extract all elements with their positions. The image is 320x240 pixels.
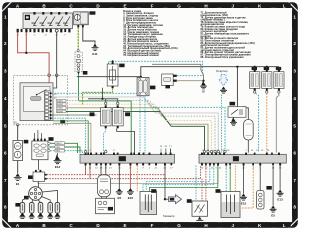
- wire black to E11: [83, 27, 95, 43]
- svg-text:5: 5: [4, 123, 7, 128]
- green wire from hall sender turning right and down: [79, 101, 132, 153]
- wire connector to distributor: [38, 182, 40, 187]
- red wire inside dashed box: [48, 75, 50, 83]
- pin column of ECU connector: [44, 91, 51, 121]
- wires strip to tank sensor 1: [136, 166, 138, 192]
- svg-text:G: G: [177, 223, 181, 228]
- svg-text:4: 4: [4, 96, 7, 101]
- wire teal from coil N30 to strip: [256, 93, 259, 152]
- plug grounds: [19, 213, 60, 218]
- ignition coil N30: [250, 67, 260, 91]
- valve component N1: [90, 105, 112, 128]
- svg-text:E1: E1: [16, 182, 20, 186]
- wire generator to ground E1: [17, 161, 19, 174]
- wire red 1: [18, 32, 27, 53]
- svg-text:ЗЛ/ГЛ: ЗЛ/ГЛ: [57, 101, 63, 103]
- charcoal filter valve component: [162, 74, 177, 88]
- svg-text:L: L: [283, 3, 286, 8]
- svg-text:2: 2: [293, 41, 296, 46]
- wire grey dashed row 3: [66, 101, 161, 117]
- spark plugs row: [15, 202, 59, 213]
- hall sender dashed connector: [75, 52, 87, 75]
- svg-text:F: F: [151, 223, 154, 228]
- ground below relay: [230, 117, 237, 125]
- dashed control unit box: [14, 75, 68, 126]
- green wires from TK chips: [50, 143, 77, 153]
- svg-text:L: L: [283, 223, 286, 228]
- svg-text:E: E: [123, 223, 126, 228]
- legend column 2: [201, 12, 255, 59]
- switch lever inside ECU: [37, 90, 47, 95]
- terminal tiny labels: [17, 35, 67, 37]
- svg-text:7: 7: [293, 178, 296, 183]
- wire teal dashed row 1: [52, 93, 153, 107]
- right connector strip: [199, 150, 286, 169]
- ground E15 right: [240, 166, 247, 206]
- svg-text:76. Нагревательный элемент: 76. Нагревательный элемент: [123, 54, 160, 57]
- wires strip to throttle pot: [195, 166, 197, 202]
- svg-text:E13: E13: [277, 197, 283, 201]
- ignition coil N31: [262, 67, 272, 91]
- svg-text:J: J: [232, 223, 235, 228]
- wires from valves down: [104, 128, 106, 153]
- fuse box top pins: [33, 12, 67, 15]
- grid labels left: [3, 11, 8, 217]
- svg-text:G: G: [177, 3, 181, 8]
- tank sensor 2 right: [216, 189, 241, 217]
- relay component with ground right: [228, 102, 246, 117]
- ground below throttle pot: [196, 216, 203, 220]
- wire dark green row 6: [66, 111, 171, 126]
- stubs above ignition unit: [34, 130, 41, 139]
- svg-text:E5: E5: [117, 196, 121, 200]
- ground E5 mid: [116, 166, 123, 200]
- svg-text:ТК/З: ТК/З: [56, 151, 61, 153]
- fuse box terminal row: [17, 29, 71, 33]
- connector pair: [77, 50, 79, 52]
- ignition control unit: [32, 137, 54, 160]
- svg-text:6: 6: [4, 151, 7, 156]
- wire orange from coil N31 to strip: [266, 93, 268, 152]
- valve component N2: [113, 105, 131, 128]
- svg-text:E11: E11: [92, 52, 98, 56]
- open terminal circle: [55, 29, 58, 32]
- fuse S13: [107, 61, 124, 88]
- ground E13 right: [277, 166, 284, 202]
- oxygen sensor oval: [137, 77, 155, 95]
- svg-text:4: 4: [293, 96, 296, 101]
- svg-text:1: 1: [293, 14, 296, 19]
- teal dashed wires from oval down: [139, 96, 141, 153]
- ground 85: [200, 81, 207, 94]
- svg-text:1: 1: [4, 14, 7, 19]
- throttle potentiometer: [187, 199, 208, 216]
- coil connector circles: [254, 91, 281, 93]
- wire tan row 5: [66, 108, 170, 124]
- distributor: [24, 187, 42, 201]
- ignition switch U2: [74, 11, 96, 24]
- ground E5 right: [270, 166, 277, 218]
- svg-text:F: F: [151, 3, 154, 8]
- svg-text:Тахометр: Тахометр: [163, 214, 175, 218]
- tachometer junction and arrow: [163, 166, 182, 218]
- wire colour chips TK rows: [55, 142, 65, 152]
- svg-text:БЛ/ЗЛ: БЛ/ЗЛ: [57, 111, 64, 113]
- ECU lower pins short wires down to strip: [52, 118, 86, 153]
- arch right legs down to right strip: [152, 107, 225, 152]
- open circles atop left strip: [84, 150, 86, 152]
- red dashed rows under strip: [47, 174, 165, 176]
- junction dots on coil bus: [254, 66, 256, 68]
- fuel gauge sender box: [96, 197, 115, 214]
- svg-text:2: 2: [4, 41, 7, 46]
- ground E1: [14, 173, 22, 186]
- tan bus pair: [152, 64, 204, 80]
- wire from coil bus down to relay: [236, 67, 238, 107]
- svg-text:E15: E15: [128, 196, 134, 200]
- svg-text:3: 3: [293, 69, 296, 74]
- capacitor C1 cylinder: [244, 120, 254, 141]
- node circle on dashed box: [48, 74, 51, 77]
- svg-text:E5: E5: [271, 213, 275, 217]
- ground E15 mid red: [127, 166, 134, 200]
- node relay output circle: [243, 107, 246, 110]
- svg-text:7: 7: [4, 178, 7, 183]
- wire colour chips rows: [57, 99, 67, 112]
- fuse/relay box top-left: [23, 13, 73, 29]
- bundle right strip to left diagonals: [143, 166, 218, 192]
- svg-text:E15: E15: [241, 201, 247, 205]
- long teal dashed bus: [109, 61, 203, 75]
- svg-text:88. Электронный блок управлени: 88. Электронный блок управления: [201, 56, 245, 59]
- svg-text:ЗЛ/БЛ: ЗЛ/БЛ: [57, 108, 64, 110]
- svg-text:ТК/Б: ТК/Б: [56, 147, 61, 149]
- svg-text:3: 3: [4, 69, 7, 74]
- open circles above valves: [105, 102, 107, 104]
- svg-text:6: 6: [293, 151, 296, 156]
- svg-text:5: 5: [293, 123, 296, 128]
- ground E11: [92, 44, 99, 56]
- tan wire from filter lower pin: [177, 80, 204, 82]
- junction red: [25, 52, 27, 54]
- svg-text:E13: E13: [55, 165, 61, 169]
- wire light grey row 2: [52, 97, 156, 113]
- wire yellow-green dashed from switch: [77, 27, 79, 49]
- wire relay to capacitor C1: [245, 108, 248, 153]
- valve feed bus with riser: [88, 88, 118, 102]
- wires strip to fuel pump: [100, 166, 102, 175]
- dark green vertical companion: [52, 114, 97, 116]
- black wire from hall box bottom across: [77, 67, 279, 77]
- fuel pump cylinder: [98, 175, 111, 197]
- wire red 2: [26, 32, 49, 74]
- wire yellow dashed row 4: [66, 104, 166, 120]
- svg-text:8: 8: [4, 205, 7, 210]
- grid labels right: [292, 11, 297, 217]
- svg-text:БЛ/БЛ: БЛ/БЛ: [57, 104, 64, 106]
- switch terminals: [77, 25, 79, 28]
- svg-text:Стартер: Стартер: [216, 69, 228, 73]
- coil bus corner down: [278, 67, 280, 70]
- sensor capsule right: [257, 166, 272, 210]
- generator component left: [13, 140, 28, 161]
- starter label and arrow: [216, 69, 228, 153]
- tank sensor 1: [140, 189, 157, 214]
- svg-text:E: E: [123, 3, 126, 8]
- wires strip to tank sensor 2: [225, 166, 227, 192]
- wire from dashed box down to generator: [17, 125, 19, 141]
- yellow dashed from fuse bottom: [83, 88, 113, 104]
- ignition coil N32: [274, 67, 284, 91]
- wire black from terminal: [56, 32, 58, 74]
- orange loop from strip: [240, 166, 253, 209]
- svg-text:J: J: [232, 3, 235, 8]
- legend column 1: [123, 10, 177, 57]
- svg-text:8: 8: [293, 205, 296, 210]
- black wire inside dashed box: [53, 75, 57, 88]
- left connector strip: [80, 153, 175, 170]
- green wire from hall sender down: [78, 74, 80, 101]
- distributor to plugs fan: [22, 191, 57, 203]
- small connector above distributor: [28, 170, 47, 182]
- teal dashed from filter top pin: [177, 75, 203, 77]
- grey chip inside ECU: [31, 97, 42, 101]
- stub wires right end of left strip: [160, 149, 162, 154]
- ground E13 left: [54, 153, 62, 169]
- wire unit to connector: [38, 160, 40, 170]
- svg-text:ТК/БЛ: ТК/БЛ: [56, 143, 62, 145]
- relay switch symbols inside fuse box: [34, 17, 71, 26]
- wire grey from coil N32 to strip: [276, 93, 279, 152]
- grid labels bottom: [11, 222, 291, 228]
- open circles atop right strip arch pins: [203, 150, 226, 152]
